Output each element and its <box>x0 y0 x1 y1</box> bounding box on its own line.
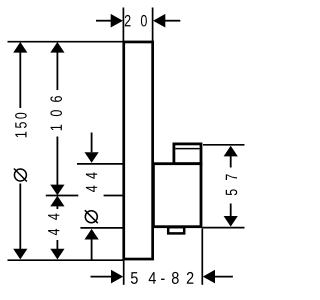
dimension 57 line <box>224 146 238 227</box>
diameter symbol of Ø44 <box>85 210 98 223</box>
reference line bottom (plate bottom extended left) <box>8 259 124 261</box>
handle top step <box>174 144 201 164</box>
dimension 57 text <box>226 174 237 195</box>
diameter symbol of Ø150 <box>14 169 27 182</box>
reference line knob bottom extended left <box>80 227 123 229</box>
extension line 54-82 left <box>123 260 125 284</box>
dimension Ø150 line <box>13 42 27 259</box>
handle step chamfer line <box>175 148 199 150</box>
handle bottom tab <box>168 227 184 233</box>
reference line knob top extended left <box>77 163 123 165</box>
extension line 20 right <box>152 8 154 42</box>
dimension 20 text <box>125 15 147 27</box>
dimension Ø150 text <box>14 113 27 182</box>
dimension Ø44 text <box>85 172 98 223</box>
dimension 106 text <box>50 96 62 130</box>
dimension 20 arrows <box>96 14 180 28</box>
dimension 44 (lower left) line <box>50 196 64 260</box>
dimension 54-82 text <box>131 272 194 284</box>
reference line knob centerline extended left (gap at text) <box>46 195 79 197</box>
extension line 20 left <box>122 8 124 42</box>
front plate (side view) <box>124 42 153 259</box>
dimension Ø44 (knob) line with outside arrows <box>85 133 99 261</box>
dimension 44 text <box>48 214 59 236</box>
extension line 57 top <box>203 144 245 146</box>
dimension 54-82 arrows <box>91 270 233 284</box>
reference line top (plate top extended left) <box>8 41 124 43</box>
extension line 54-82 right <box>201 229 203 285</box>
dimension 106 line <box>50 42 64 195</box>
extension line 57 bottom <box>203 227 245 229</box>
handle knob body <box>153 164 201 227</box>
